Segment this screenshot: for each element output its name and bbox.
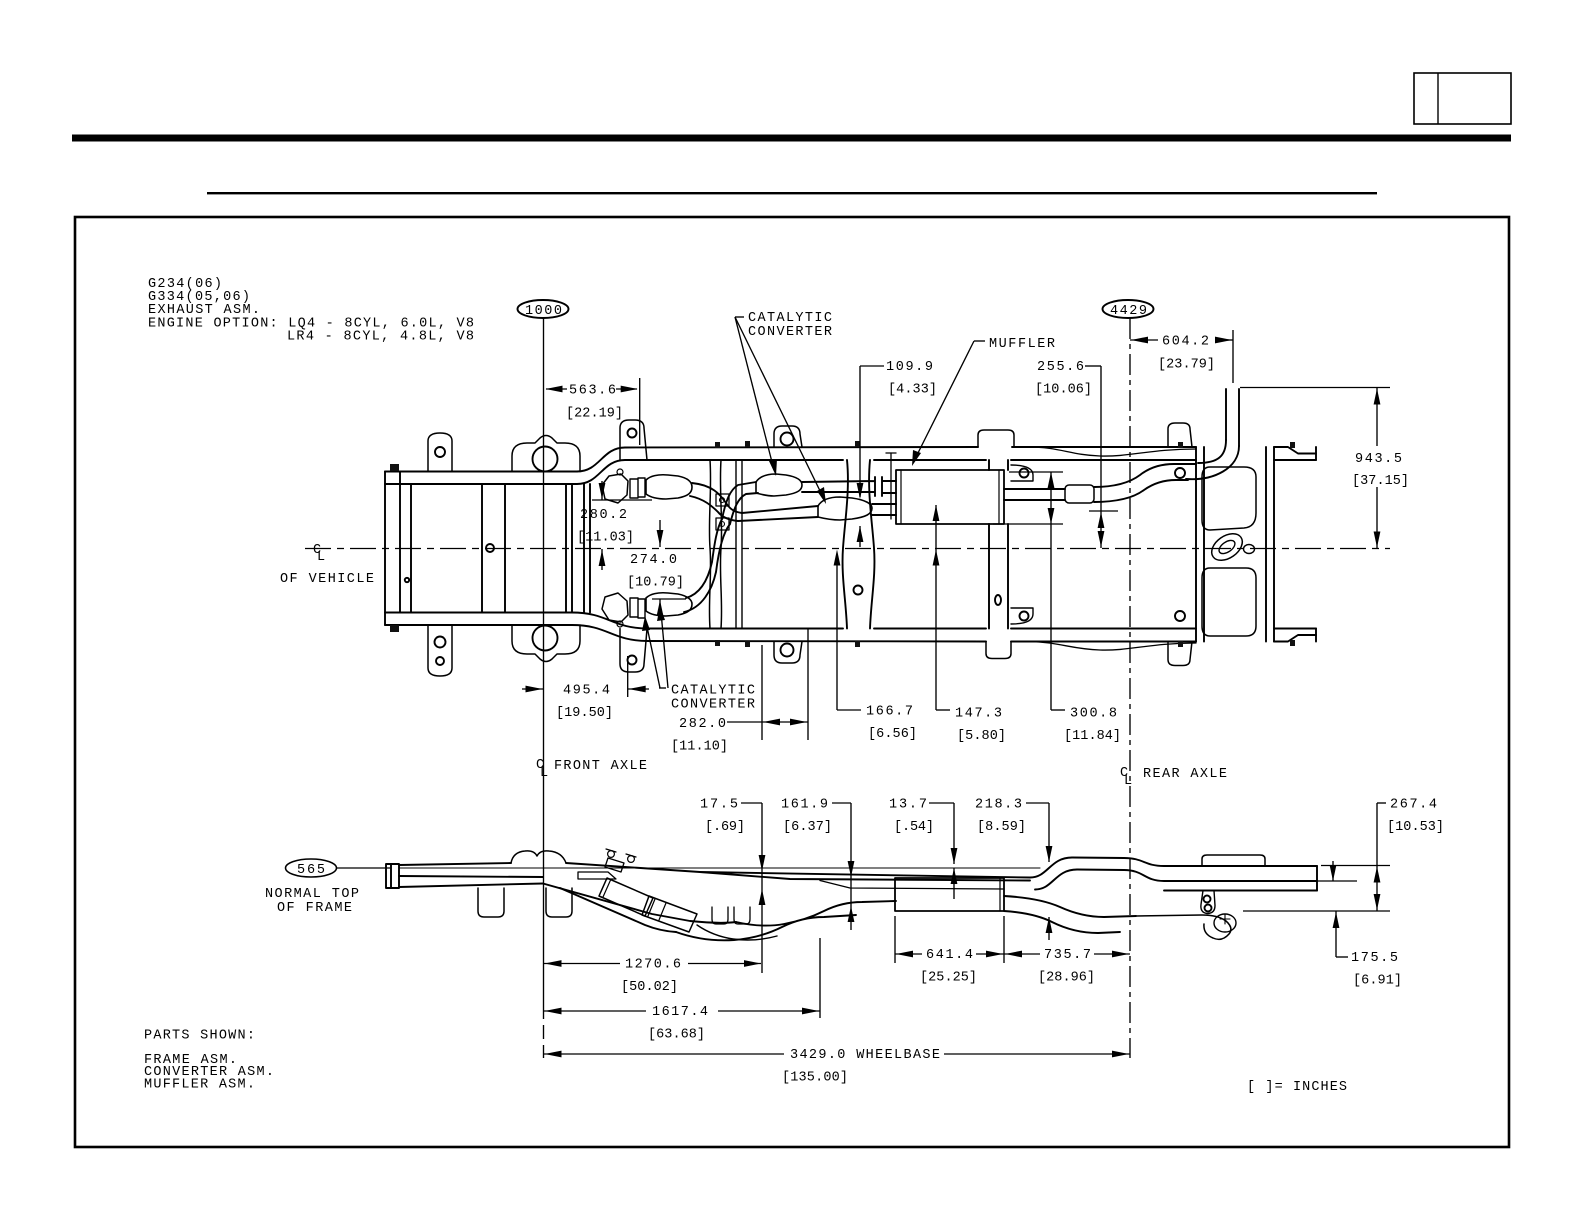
- dim 943.5: [1240, 387, 1390, 389]
- front cross member (bumper mount): [400, 472, 411, 613]
- svg-text:NORMAL TOP: NORMAL TOP: [265, 887, 359, 902]
- tail pipe side: [1004, 896, 1136, 933]
- svg-text:[4.33]: [4.33]: [888, 383, 937, 398]
- svg-text:[6.37]: [6.37]: [783, 820, 832, 835]
- tail pipe hanger clamp: [1065, 485, 1094, 503]
- catalytic converter leader (bottom): [659, 687, 666, 689]
- svg-text:[19.50]: [19.50]: [556, 706, 613, 721]
- svg-text:[10.53]: [10.53]: [1387, 820, 1444, 835]
- under brackets: [478, 888, 504, 917]
- lower third catalytic converter: [818, 497, 872, 520]
- balloon 4429: [1103, 300, 1154, 319]
- svg-text:CATALYTIC: CATALYTIC: [748, 311, 832, 326]
- dim 1270.6: [544, 963, 621, 965]
- cab mount bracket bottom: [620, 629, 647, 673]
- engine detail small parts: [578, 858, 624, 879]
- svg-text:943.5: 943.5: [1355, 452, 1402, 467]
- front axle line: [543, 318, 545, 1005]
- svg-text:[28.96]: [28.96]: [1038, 971, 1095, 986]
- tail pipe elbow up: [1186, 440, 1239, 479]
- svg-text:[.54]: [.54]: [894, 820, 934, 835]
- dim 3429.0 wheelbase: [544, 1053, 785, 1055]
- dim 300.8 leader: [1050, 472, 1052, 710]
- bottom rail bracket with hole: [774, 642, 802, 664]
- pipe hanger blocks on crossmember: [716, 494, 729, 506]
- dim 161.9 leader: [832, 802, 851, 804]
- dim 495.4: [627, 656, 629, 697]
- bolt marks on rails: [390, 441, 1295, 647]
- svg-text:1000: 1000: [525, 304, 562, 319]
- muffler side: [895, 878, 1004, 911]
- svg-text:MUFFLER: MUFFLER: [989, 337, 1055, 352]
- svg-text:735.7: 735.7: [1044, 948, 1091, 963]
- svg-text:L: L: [317, 550, 325, 565]
- upper-left catalytic converter: [602, 474, 628, 503]
- svg-text:[63.68]: [63.68]: [648, 1028, 705, 1043]
- svg-text:CONVERTER: CONVERTER: [748, 325, 832, 340]
- side rail top edge: [399, 858, 1317, 878]
- pipe from upper cat crossing down: [690, 483, 742, 521]
- svg-text:PARTS SHOWN:: PARTS SHOWN:: [144, 1029, 255, 1044]
- svg-text:OF VEHICLE: OF VEHICLE: [280, 572, 374, 587]
- svg-text:604.2: 604.2: [1162, 335, 1209, 350]
- balloon 565: [286, 859, 337, 877]
- muffler hanger rod: [890, 453, 892, 519]
- rear axle line: [1129, 318, 1131, 1058]
- frame web lines mid: [700, 872, 1030, 881]
- svg-text:[.69]: [.69]: [705, 820, 745, 835]
- front bumper bracket top: [428, 433, 452, 472]
- svg-text:[10.79]: [10.79]: [627, 576, 684, 591]
- svg-text:[11.03]: [11.03]: [577, 531, 634, 546]
- rear spring cross member: [989, 460, 1008, 629]
- kick-down diagonals: [543, 884, 736, 923]
- top thick rule: [72, 135, 1511, 142]
- second cross member: [482, 484, 505, 613]
- svg-text:[8.59]: [8.59]: [977, 820, 1026, 835]
- svg-text:3429.0 WHEELBASE: 3429.0 WHEELBASE: [790, 1048, 940, 1063]
- muffler leader: [974, 340, 985, 342]
- svg-text:300.8: 300.8: [1070, 707, 1117, 722]
- svg-text:L: L: [1124, 774, 1132, 789]
- dim 641.4 / 735.7: [894, 916, 896, 963]
- tail pipe from muffler: [1004, 489, 1065, 500]
- spring hanger bottom rear: [986, 642, 1011, 659]
- bottom rail inner edge: [385, 613, 1316, 629]
- dim 563.6: [639, 378, 641, 445]
- dim 255.6 leader: [1085, 365, 1101, 367]
- upper pipe run to second converter: [722, 482, 758, 524]
- svg-text:175.5: 175.5: [1351, 951, 1398, 966]
- dim 282.0: [761, 645, 763, 740]
- svg-text:4429: 4429: [1110, 304, 1147, 319]
- mid pipes to muffler: [676, 901, 896, 940]
- svg-text:17.5: 17.5: [700, 798, 738, 813]
- top rail inner edge: [385, 460, 1316, 484]
- pipe from lower cat sweeping up: [684, 519, 730, 612]
- svg-text:FRONT AXLE: FRONT AXLE: [554, 759, 647, 774]
- main border: [75, 217, 1509, 1147]
- svg-text:[10.06]: [10.06]: [1035, 383, 1092, 398]
- muffler: [896, 470, 1004, 524]
- dim 274.0 arrows: [652, 598, 686, 600]
- svg-text:[ ]= INCHES: [ ]= INCHES: [1247, 1080, 1347, 1095]
- svg-text:218.3: 218.3: [975, 798, 1022, 813]
- balloon 1000: [518, 300, 569, 319]
- upper second catalytic converter: [756, 474, 802, 496]
- svg-text:147.3: 147.3: [955, 707, 1002, 722]
- svg-text:161.9: 161.9: [781, 798, 828, 813]
- svg-text:641.4: 641.4: [926, 948, 973, 963]
- shock mount top: [512, 436, 580, 472]
- dim 604.2: [1232, 330, 1234, 383]
- side rail lower lines front: [399, 884, 543, 888]
- bump bracket on rear rail: [1202, 855, 1265, 866]
- svg-text:[6.56]: [6.56]: [868, 727, 917, 742]
- dim 166.7 leader: [836, 556, 838, 710]
- svg-text:OF FRAME: OF FRAME: [277, 901, 352, 916]
- svg-text:495.4: 495.4: [563, 684, 610, 699]
- vehicle centerline: [280, 543, 1390, 587]
- rail kick-up second lines: [1035, 870, 1317, 890]
- dim 1617.4: [819, 938, 821, 1018]
- DIMENSION TEXTS: [144, 311, 1444, 1095]
- cab mount bracket top: [620, 420, 647, 460]
- svg-text:109.9: 109.9: [886, 360, 933, 375]
- crossmember pair behind cab: [709, 460, 721, 629]
- svg-text:CATALYTIC: CATALYTIC: [671, 684, 755, 699]
- lower-left catalytic converter: [602, 593, 628, 622]
- svg-text:[135.00]: [135.00]: [782, 1071, 848, 1086]
- svg-text:MUFFLER ASM.: MUFFLER ASM.: [144, 1078, 255, 1093]
- top rail bracket with hole: [774, 426, 802, 447]
- rail right end caps: [1315, 447, 1317, 460]
- svg-text:13.7: 13.7: [889, 798, 927, 813]
- svg-text:255.6: 255.6: [1037, 360, 1084, 375]
- sheet corner box: [1414, 73, 1511, 124]
- tail pipe vertical: [1226, 389, 1239, 446]
- svg-text:166.7: 166.7: [866, 705, 913, 720]
- svg-text:[25.25]: [25.25]: [920, 971, 977, 986]
- tail pipe hanger bracket: [1201, 891, 1215, 914]
- converter boxes (side): [599, 878, 653, 916]
- svg-text:563.6: 563.6: [569, 384, 616, 399]
- catalytic converter leader (top): [735, 316, 744, 318]
- normal top of frame reference line: [399, 867, 1040, 869]
- lower pipe run to third converter: [738, 506, 818, 521]
- svg-text:565: 565: [297, 863, 325, 878]
- svg-text:282.0: 282.0: [679, 717, 726, 732]
- svg-text:[5.80]: [5.80]: [957, 729, 1006, 744]
- svg-text:[6.91]: [6.91]: [1353, 974, 1402, 989]
- transmission cross member: [566, 484, 590, 613]
- dim 175.5: [1332, 861, 1334, 881]
- dim 17.5 leader: [741, 802, 762, 804]
- dim 280.2 arrows: [592, 499, 652, 501]
- spring hanger top rear: [978, 430, 1014, 447]
- svg-text:[11.84]: [11.84]: [1064, 729, 1121, 744]
- dim 147.3 leader: [935, 505, 937, 710]
- svg-text:[11.10]: [11.10]: [671, 740, 728, 755]
- second rule: [207, 192, 1377, 194]
- rear cross member tabs: [1168, 423, 1192, 666]
- DIMENSIONS: [522, 317, 1390, 1057]
- bottom rail rear wave: [1028, 642, 1196, 651]
- hanger under pipe: [712, 907, 750, 924]
- top rail outer edge: [385, 447, 1316, 472]
- bottom rail outer edge: [385, 625, 1316, 642]
- body mount bump on top: [511, 851, 566, 863]
- upper pipe into muffler: [802, 477, 896, 496]
- svg-text:280.2: 280.2: [580, 508, 627, 523]
- shock mount bottom: [512, 625, 580, 662]
- svg-text:L: L: [540, 766, 548, 781]
- tail pipe s-bend to rear: [1094, 464, 1196, 502]
- svg-text:CONVERTER: CONVERTER: [671, 698, 755, 713]
- front bumper bracket bottom: [428, 625, 452, 676]
- side rail front cap: [386, 864, 399, 888]
- dim 218.3 leader: [1026, 802, 1049, 804]
- SIDE VIEW: [286, 859, 337, 877]
- svg-text:274.0: 274.0: [630, 553, 677, 568]
- mid cross member (waisted): [843, 460, 875, 629]
- dim 13.7 leader: [929, 802, 954, 804]
- svg-text:[22.19]: [22.19]: [566, 407, 623, 422]
- lower pipe into muffler: [872, 504, 896, 515]
- dim 109.9 leader: [860, 365, 884, 367]
- rear cross member: [1196, 447, 1274, 642]
- svg-text:[23.79]: [23.79]: [1158, 358, 1215, 373]
- PLAN VIEW: [385, 389, 1316, 676]
- header text block: [148, 277, 474, 345]
- svg-text:REAR AXLE: REAR AXLE: [1143, 767, 1227, 782]
- svg-text:[50.02]: [50.02]: [621, 980, 678, 995]
- svg-text:[37.15]: [37.15]: [1352, 474, 1409, 489]
- top rail rear wave: [1028, 447, 1196, 456]
- dim 267.4: [1377, 802, 1386, 804]
- svg-text:267.4: 267.4: [1390, 798, 1437, 813]
